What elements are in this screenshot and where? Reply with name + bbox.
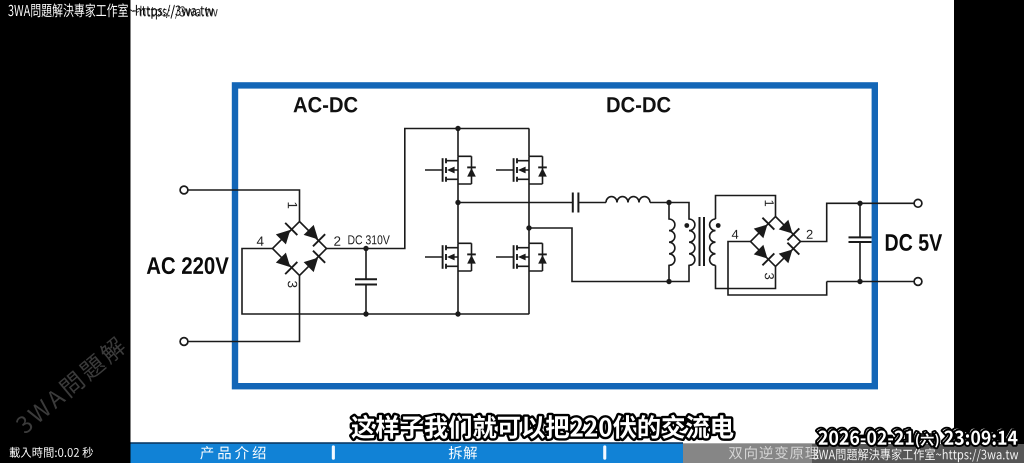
wire right H-bridge column xyxy=(528,129,530,315)
header watermark studio name xyxy=(8,3,128,17)
transformer T1 secondary winding xyxy=(710,219,716,265)
wire AC bottom to bridge node 3 xyxy=(188,276,300,342)
BR1 pin label 2 xyxy=(334,236,340,245)
wire secondary bottom to bridge node 3 xyxy=(716,265,776,288)
bottom-right watermark box xyxy=(812,444,1024,463)
BR2 diode 4-to-3 (lower-left) xyxy=(753,244,775,266)
label DC-DC xyxy=(607,97,670,113)
header watermark url xyxy=(129,5,213,19)
node junction output plus xyxy=(857,201,862,206)
BR2 diode 4-to-1 (upper-left) xyxy=(753,218,775,240)
node junction bottom rail xyxy=(455,311,460,316)
node junction DC310V top xyxy=(363,246,368,251)
tab label 拆解 xyxy=(449,446,477,459)
transformer T1 secondary phase dot xyxy=(716,223,721,228)
BR2 diode 1-to-2 (upper-right) xyxy=(778,219,800,241)
bottom tab bar gray segment xyxy=(683,443,861,463)
wire bridge node 2 to DC plus / H-bridge top rail xyxy=(327,129,530,249)
footer watermark url xyxy=(813,448,1018,462)
tab label 双向逆变原理 xyxy=(729,446,819,460)
header watermark url ghost copy xyxy=(134,6,218,20)
node junction DC minus rail xyxy=(363,311,368,316)
BR2 pin label 2 xyxy=(807,230,813,239)
footer load time text xyxy=(10,447,93,458)
terminal AC top xyxy=(180,186,188,194)
wire secondary top to bridge node 1 xyxy=(716,196,776,220)
BR1 pin label 1 xyxy=(288,203,297,209)
wire resonant capacitor to inductor xyxy=(579,202,606,204)
sidebar diagonal watermark xyxy=(13,335,128,436)
label AC 220V xyxy=(147,257,229,274)
transformer T1 primary winding xyxy=(669,203,695,282)
bottom tab bar top border xyxy=(131,442,684,444)
transistor Q3 (lower-left MOSFET) xyxy=(425,243,476,271)
BR2 diode 3-to-2 (lower-right) xyxy=(778,243,800,265)
BR1 diode 4-to-3 (lower-left) xyxy=(275,252,298,275)
capacitor C1 (bus) xyxy=(355,249,377,315)
node junction top rail xyxy=(455,126,460,131)
BR1 pin label 4 xyxy=(257,237,264,246)
terminal DC minus xyxy=(914,278,922,286)
tab separator 2 xyxy=(603,445,606,459)
bottom tab bar blue xyxy=(131,443,684,463)
BR2 pin label 3 xyxy=(765,273,774,279)
wire right midpoint to node B (return) xyxy=(529,228,669,282)
node B junction xyxy=(666,279,671,284)
wire left midpoint to resonant capacitor xyxy=(458,202,573,204)
label DC 5V xyxy=(886,234,942,251)
wire BR2 node 2 to DC plus output xyxy=(801,203,915,241)
node junction left midpoint xyxy=(455,200,460,205)
left pillarbox bar xyxy=(0,0,131,463)
inductor Lm (magnetizing, vertical) xyxy=(669,203,675,282)
capacitor Cr (series resonant) xyxy=(573,193,579,213)
label DC 310V xyxy=(348,235,389,244)
transistor Q4 (lower-right MOSFET) xyxy=(496,243,547,271)
BR1 diode 3-to-2 (lower-right) xyxy=(303,251,326,274)
capacitor C2 (output) xyxy=(849,203,872,281)
bridge rectifier BR2 diamond xyxy=(751,217,801,267)
terminal DC plus xyxy=(914,199,922,207)
BR1 pin label 3 xyxy=(288,281,298,287)
transistor Q1 (upper-left MOSFET) xyxy=(425,156,476,184)
BR2 pin label 4 xyxy=(732,230,739,239)
BR1 diode 4-to-1 (upper-left) xyxy=(275,223,298,246)
BR1 diode 1-to-2 (upper-right) xyxy=(303,224,326,247)
node junction right midpoint xyxy=(526,225,531,230)
node A junction xyxy=(666,200,671,205)
wire left H-bridge column xyxy=(457,129,459,315)
transistor Q2 (upper-right MOSFET) xyxy=(496,156,547,184)
wire bridge node 4 to DC minus rail xyxy=(242,249,529,315)
right pillarbox bar xyxy=(954,0,1024,463)
transformer T1 primary phase dot xyxy=(684,223,689,228)
wire BR2 node 4 to DC minus output xyxy=(728,242,914,296)
subtitle caption text xyxy=(352,415,734,439)
blue frame around schematic xyxy=(235,85,875,386)
BR2 pin label 1 xyxy=(765,201,774,207)
tab label 产品介绍 xyxy=(200,446,265,460)
tab separator 1 xyxy=(332,445,335,459)
transformer T1 core xyxy=(700,217,705,266)
timestamp ghost copy xyxy=(817,429,1016,446)
node junction output minus xyxy=(857,279,862,284)
wire inductor to node A xyxy=(650,202,669,204)
bridge rectifier BR1 diamond xyxy=(273,222,327,276)
terminal AC bottom xyxy=(180,338,188,346)
wire AC top to bridge node 1 xyxy=(188,190,300,221)
timestamp xyxy=(819,431,1018,448)
label AC-DC xyxy=(294,97,358,113)
inductor Lr (series resonant) xyxy=(606,197,650,203)
